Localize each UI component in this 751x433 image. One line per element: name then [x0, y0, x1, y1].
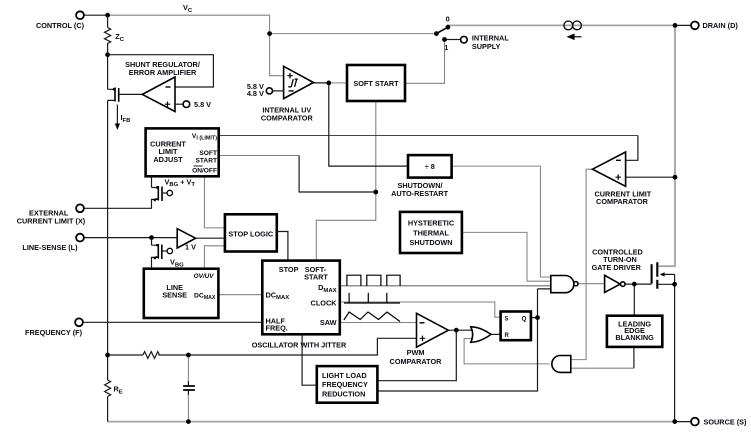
comparator INTERNAL UV	[247, 66, 314, 122]
wire current limit adjust VI(LIMIT) long wire	[219, 135, 638, 137]
svg-text:LINE-SENSE (L): LINE-SENSE (L)	[22, 243, 78, 252]
svg-text:SENSE: SENSE	[162, 291, 187, 300]
node cap bottom	[186, 419, 191, 424]
svg-text:OSCILLATOR WITH JITTER: OSCILLATOR WITH JITTER	[252, 340, 347, 349]
terminal 5.8/4.8V threshold	[272, 90, 283, 92]
wire OR output to latch R	[491, 333, 501, 335]
wire line sense L	[84, 237, 178, 239]
wire oscillator bottom to light load box	[302, 334, 317, 385]
svg-text:PWM: PWM	[407, 348, 425, 357]
box LIGHT LOAD FREQUENCY REDUCTION	[317, 366, 378, 403]
wire bottom source rail	[108, 421, 675, 423]
svg-text:SAW: SAW	[320, 318, 337, 327]
node RC left	[105, 353, 110, 358]
node line sense tap	[149, 235, 154, 240]
wire control to VC rail	[84, 14, 108, 16]
svg-text:FREQUENCY (F): FREQUENCY (F)	[25, 328, 83, 337]
wire latch Q net	[377, 289, 550, 391]
wire soft start to internal supply switch	[405, 40, 445, 84]
wire PWM output to OR and down to light load	[377, 330, 474, 381]
wire CLOCK to latch S input	[340, 302, 501, 317]
svg-text:STOP LOGIC: STOP LOGIC	[228, 229, 273, 238]
terminal 5.8 V reference	[183, 101, 190, 108]
terminal EXTERNAL CURRENT LIMIT (X)	[76, 204, 84, 212]
wire opamp plus to 5.8V	[175, 103, 183, 105]
capacitor C	[183, 386, 195, 390]
node drain rail top	[673, 23, 678, 28]
wire dcmax line sense to oscillator	[218, 294, 262, 296]
wire RE bottom to rail	[107, 355, 109, 422]
node UV comparator output	[326, 81, 331, 86]
wire power mosfet source and body	[657, 274, 674, 421]
node mosfet source	[672, 282, 677, 287]
wire left vertical rail top	[107, 55, 109, 90]
svg-text:COMPARATOR: COMPARATOR	[596, 197, 649, 206]
box SOFT START	[347, 65, 405, 101]
wire NAND output to gate driver inverter	[578, 283, 604, 285]
svg-text:AUTO-RESTART: AUTO-RESTART	[391, 189, 448, 198]
wire SAW to PWM comparator minus	[340, 322, 417, 324]
svg-text:4.8 V: 4.8 V	[247, 89, 264, 98]
svg-text:CLOCK: CLOCK	[311, 299, 338, 308]
terminal SOURCE (S)	[691, 418, 699, 426]
svg-text:HYSTERETIC: HYSTERETIC	[408, 219, 455, 228]
svg-text:ADJUST: ADJUST	[153, 155, 183, 164]
svg-text:5.8 V: 5.8 V	[194, 100, 211, 109]
gate AND reversed	[552, 356, 571, 373]
GREY WIRES LAYER	[108, 25, 692, 421]
box OSCILLATOR WITH JITTER	[252, 261, 347, 350]
svg-text:COMPARATOR: COMPARATOR	[390, 357, 443, 366]
box LINE SENSE	[144, 269, 219, 318]
box LEADING EDGE BLANKING	[607, 316, 662, 347]
gate NAND	[551, 276, 578, 293]
svg-text:LIGHT LOAD: LIGHT LOAD	[322, 371, 367, 380]
wire ov/uv to stop logic	[204, 246, 225, 269]
gate OR	[471, 327, 491, 343]
transistor VBG+VT MOSFET	[152, 176, 196, 208]
svg-text:SOURCE (S): SOURCE (S)	[704, 417, 748, 426]
transistor power MOSFET	[652, 262, 665, 288]
svg-text:START: START	[304, 273, 328, 282]
svg-text:ERROR AMPLIFIER: ERROR AMPLIFIER	[129, 68, 197, 77]
wire div8 output to NAND top input	[452, 166, 551, 277]
box HYSTERETIC THERMAL SHUTDOWN	[400, 212, 462, 253]
wire top drain rail	[448, 25, 675, 26]
wire current limit adjust soft start pin	[219, 155, 299, 157]
buffer 1V line sense	[177, 229, 225, 252]
wire soft start bottom to oscillator soft-start pin	[316, 101, 376, 261]
svg-text:SUPPLY: SUPPLY	[472, 42, 501, 51]
terminal CONTROL (C)	[76, 11, 84, 19]
box STOP LOGIC	[225, 214, 288, 260]
wire DMAX rail to NAND input	[340, 285, 551, 287]
wire soft start pin corner to junction	[299, 156, 376, 193]
wire external current limit X	[84, 207, 153, 209]
svg-text:COMPARATOR: COMPARATOR	[261, 114, 314, 123]
wire drain rail vertical	[658, 25, 675, 266]
node soft start junction	[373, 190, 378, 195]
terminal DRAIN (D)	[691, 22, 699, 30]
svg-text:R: R	[505, 333, 510, 339]
comparator CURRENT LIMIT	[593, 152, 652, 206]
wire capacitor legs	[187, 355, 189, 422]
svg-text:CURRENT LIMIT (X): CURRENT LIMIT (X)	[17, 216, 86, 225]
waveform SAW sawtooth	[344, 312, 400, 322]
svg-text:SHUTDOWN: SHUTDOWN	[410, 238, 453, 247]
svg-text:0: 0	[446, 15, 450, 24]
svg-text:START: START	[196, 157, 218, 164]
node PWM output	[454, 328, 459, 333]
transistor shunt pass MOSFET	[108, 88, 143, 102]
latch S/R	[501, 312, 531, 341]
op-amp shunt regulator error amplifier	[125, 60, 200, 112]
box divide by 8 SHUTDOWN/AUTO-RESTART	[391, 155, 451, 198]
svg-text:OV/UV: OV/UV	[194, 273, 215, 280]
svg-text:÷ 8: ÷ 8	[425, 162, 435, 171]
svg-text:1 V: 1 V	[185, 243, 196, 252]
wire hysteretic output to NAND input	[462, 232, 551, 281]
svg-text:SOFT: SOFT	[199, 150, 217, 157]
svg-text:FREQ.: FREQ.	[266, 324, 288, 333]
resistor ZC	[105, 15, 111, 55]
svg-text:REDUCTION: REDUCTION	[322, 389, 365, 398]
wire UV comparator output to soft start and div8	[314, 83, 409, 166]
svg-text:THERMAL: THERMAL	[413, 228, 449, 237]
terminal LINE-SENSE (L)	[76, 234, 84, 242]
wire current limit comparator output to AND gate	[571, 169, 593, 359]
node gate driver output	[632, 282, 637, 287]
node RC cap top	[186, 353, 191, 358]
resistor bottom horizontal	[143, 352, 160, 359]
svg-text:Q: Q	[522, 316, 527, 322]
svg-text:GATE DRIVER: GATE DRIVER	[592, 263, 642, 272]
wire LEB output to AND gate lower input	[571, 367, 634, 369]
current source drain supply	[564, 21, 582, 39]
svg-text:STOP: STOP	[279, 265, 299, 274]
switch internal supply	[434, 15, 509, 52]
resistor RE	[105, 380, 111, 396]
wire inverter output to mosfet gate	[625, 284, 651, 316]
wire internal supply feed horizontal	[270, 33, 437, 35]
BLACK WIRES LAYER	[83, 15, 676, 421]
waveform DMAX square wave	[347, 275, 400, 286]
node source rail bottom	[672, 419, 677, 424]
svg-text:1: 1	[444, 43, 448, 52]
wire LEB top vertical	[633, 347, 635, 368]
svg-text:BLANKING: BLANKING	[615, 333, 654, 342]
comparator PWM	[390, 313, 449, 366]
node shunt regulator tap	[105, 52, 110, 57]
wire shunt regulator feedback loop	[108, 55, 214, 87]
wire AND output to OR gate lower input	[464, 339, 550, 364]
svg-text:ON/OFF: ON/OFF	[192, 167, 217, 174]
node current limit comparator plus	[673, 175, 678, 180]
svg-text:SOFT START: SOFT START	[353, 79, 399, 88]
wire source stub	[675, 421, 691, 423]
transistor VBG MOSFET	[152, 238, 185, 269]
waveform CLOCK pulses	[344, 293, 400, 303]
node VC to supply switch	[267, 31, 272, 36]
wire bottom RC network	[108, 338, 417, 355]
wire current limit comparator minus stub	[626, 136, 638, 161]
label IFB current arrow	[115, 105, 131, 130]
node latch Q	[535, 315, 540, 320]
svg-text:FREQUENCY: FREQUENCY	[322, 380, 368, 389]
wire frequency F to oscillator half freq	[83, 321, 263, 323]
wire drain stub	[675, 24, 691, 26]
buffer gate driver inverter	[592, 247, 643, 292]
wire on/off to stop logic	[204, 176, 225, 228]
box CURRENT LIMIT ADJUST	[146, 128, 219, 176]
svg-text:CONTROL (C): CONTROL (C)	[36, 21, 85, 30]
svg-text:DRAIN (D): DRAIN (D)	[703, 21, 739, 30]
svg-text:S: S	[505, 316, 509, 322]
wire current limit comparator plus to drain rail	[626, 176, 675, 178]
terminal FREQUENCY (F)	[75, 318, 83, 326]
wire left vertical rail below shunt mosfet	[107, 100, 109, 354]
node VC/control junction	[105, 13, 110, 18]
